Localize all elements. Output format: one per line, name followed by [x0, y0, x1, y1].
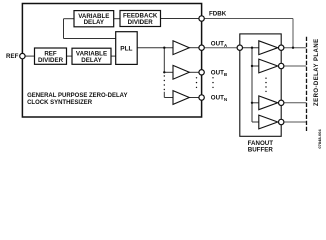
svg-text:DIVIDER: DIVIDER	[38, 57, 64, 64]
ellipsis: more output drivers (branch column)	[196, 77, 197, 88]
zero-delay plane dashed line	[306, 37, 308, 131]
ellipsis: more fanout buffers	[265, 78, 266, 93]
svg-text:DELAY: DELAY	[81, 57, 102, 64]
svg-text:07848-004: 07848-004	[317, 129, 322, 149]
svg-text:GENERAL PURPOSE ZERO-DELAY: GENERAL PURPOSE ZERO-DELAY	[27, 93, 127, 99]
wire: FDBK external feedback horizontal	[202, 18, 293, 20]
wire: fanout output 2 to zero-delay plane	[281, 65, 306, 67]
wire: top VARIABLE DELAY input horizontal	[64, 18, 75, 20]
fanout buffer 4	[259, 115, 278, 129]
wire: REF DIVIDER to VARIABLE DELAY	[67, 55, 73, 57]
wire: VARIABLE DELAY to PLL lower input	[111, 55, 116, 57]
terminal: fanout output 1	[279, 45, 284, 50]
wire: branch vertical to buffer B	[163, 48, 165, 73]
wire: fanout input to buffer 1	[240, 47, 259, 49]
wire: branch vertical to buffer N	[163, 92, 165, 98]
wire: fanout input distribution vertical	[251, 48, 253, 122]
fanout buffer 3	[259, 96, 278, 110]
terminal: REF	[20, 53, 25, 58]
buffer B (output driver)	[173, 65, 189, 79]
box: REF DIVIDER	[35, 48, 67, 64]
fanout buffer 1	[259, 41, 278, 55]
box: FEEDBACK DIVIDER	[120, 11, 161, 27]
junction: fanout distribution at row 3	[251, 102, 253, 104]
terminal: fanout output 4	[279, 119, 284, 124]
terminal: fanout output 3	[279, 100, 284, 105]
svg-text:REF: REF	[6, 53, 19, 60]
wire: top VARIABLE DELAY to FEEDBACK DIVIDER	[114, 18, 120, 20]
box: VARIABLE DELAY (reference path)	[72, 48, 111, 64]
box: PLL	[116, 32, 138, 65]
terminal: FDBK	[199, 16, 204, 21]
wire: buffer A output to OUT_A	[189, 47, 201, 49]
junction: feedback tap on fanout output 1	[292, 47, 294, 49]
wire: FEEDBACK DIVIDER to FDBK terminal	[161, 18, 202, 20]
ellipsis: more outputs (label column)	[212, 77, 213, 88]
wire: into PLL upper input	[64, 38, 116, 40]
wire: into fanout buffer 2	[252, 65, 259, 67]
wire: into fanout buffer 3	[252, 102, 259, 104]
terminal: OUT_B	[199, 70, 204, 75]
wire: vertical from top VARIABLE DELAY down	[63, 19, 65, 39]
terminal: fanout output 2	[279, 63, 284, 68]
svg-text:BUFFER: BUFFER	[248, 147, 274, 154]
wire: buffer N output to OUT_N	[189, 97, 201, 99]
wire: fanout output 4 to zero-delay plane	[281, 121, 306, 123]
wire: REF terminal to REF DIVIDER	[22, 55, 34, 57]
terminal: OUT_N	[199, 95, 204, 100]
terminal: OUT_A	[199, 45, 204, 50]
svg-text:ZERO-DELAY PLANE: ZERO-DELAY PLANE	[314, 38, 320, 106]
junction: branch at buffer B	[163, 71, 165, 73]
wire: buffer B output to OUT_B	[189, 71, 201, 73]
wire: into fanout buffer 4	[252, 121, 259, 123]
wire: into buffer B	[164, 71, 173, 73]
junction: PLL output branch at buffer A	[163, 47, 165, 49]
terminal: fanout input	[237, 45, 242, 50]
fanout buffer 2	[259, 59, 278, 73]
wire: FDBK external feedback vertical	[292, 19, 294, 48]
buffer N (output driver)	[173, 91, 189, 105]
box: VARIABLE DELAY (feedback path)	[74, 11, 114, 27]
junction: fanout distribution at row 1	[251, 47, 253, 49]
svg-text:FDBK: FDBK	[209, 10, 227, 17]
wire: OUT_A to fanout buffer input	[202, 47, 240, 49]
svg-text:DELAY: DELAY	[84, 19, 105, 26]
wire: PLL output to buffer A	[137, 47, 173, 49]
chip U1: zero-delay clock synthesizer outline	[22, 4, 201, 118]
svg-text:CLOCK SYNTHESIZER: CLOCK SYNTHESIZER	[27, 100, 93, 106]
buffer A (output driver)	[173, 41, 189, 55]
wire: fanout output 1 to zero-delay plane	[281, 47, 306, 49]
junction: fanout distribution at row 2	[251, 65, 253, 67]
svg-text:PLL: PLL	[120, 46, 132, 53]
dotted continuation of branch vertical	[164, 75, 165, 90]
wire: fanout output 3 to zero-delay plane	[281, 102, 306, 104]
svg-text:DIVIDER: DIVIDER	[128, 19, 154, 26]
wire: into buffer N	[164, 97, 173, 99]
chip U2: fanout buffer outline	[240, 34, 281, 136]
